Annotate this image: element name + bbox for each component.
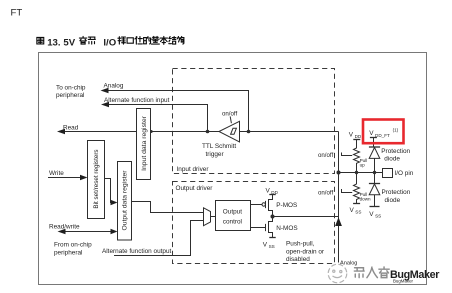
watermark text 嵌入式BugMaker	[354, 267, 440, 283]
svg-text:(1): (1)	[393, 127, 399, 132]
svg-text:Write: Write	[49, 170, 64, 177]
svg-text:Bit set/reset registers: Bit set/reset registers	[93, 149, 100, 208]
VDD rail above P-MOS	[266, 188, 279, 196]
wire: read line right of schmitt to pin column	[239, 131, 338, 133]
svg-text:BugMaker: BugMaker	[393, 278, 414, 283]
svg-text:Input data register: Input data register	[141, 115, 148, 171]
node dot: MOS drain junction	[271, 215, 275, 219]
svg-text:V: V	[263, 241, 268, 248]
svg-text:trigger: trigger	[206, 151, 225, 158]
svg-text:V: V	[266, 188, 271, 195]
node dot on IDR right edge	[150, 130, 153, 133]
wire: BSRR to ODR connector	[105, 179, 118, 206]
svg-text:To on-chip: To on-chip	[56, 85, 86, 92]
svg-text:on/off: on/off	[222, 111, 237, 118]
svg-text:peripheral: peripheral	[54, 249, 82, 256]
VSS rail below N-MOS	[263, 238, 276, 249]
wire: ODR to mux top input	[132, 202, 204, 213]
wire: Write with arrow into BSRR	[48, 170, 88, 180]
N-MOS transistor	[251, 217, 298, 238]
svg-text:SS: SS	[375, 213, 381, 218]
mux trapezoid	[204, 208, 211, 226]
VSS rail below bottom diode	[369, 207, 381, 219]
svg-text:DD: DD	[355, 134, 362, 139]
figure outer frame	[39, 53, 427, 285]
svg-text:open-drain or: open-drain or	[286, 248, 325, 255]
P-MOS transistor	[251, 195, 298, 217]
input driver dashed box	[173, 69, 335, 174]
protection diode (top)	[369, 147, 411, 173]
input data register box	[137, 109, 151, 180]
svg-text:13.: 13.	[47, 37, 60, 48]
wire: Read/write double arrow	[49, 224, 118, 235]
watermark logo circle	[328, 264, 347, 283]
svg-text:V: V	[369, 130, 374, 137]
svg-text:DD_FT: DD_FT	[375, 133, 390, 138]
I/O pin square	[383, 169, 414, 178]
wire: MOS output to pin column	[273, 216, 339, 218]
svg-text:diode: diode	[384, 156, 400, 163]
svg-text:Alternate function output: Alternate function output	[102, 248, 172, 255]
svg-text:on/off: on/off	[318, 189, 333, 196]
svg-text:P-MOS: P-MOS	[276, 202, 297, 209]
svg-text:TTL Schmitt: TTL Schmitt	[202, 143, 236, 150]
wire: read line from IDR to schmitt apex	[151, 131, 220, 133]
svg-text:From on-chip: From on-chip	[54, 242, 92, 249]
svg-text:Read: Read	[63, 125, 79, 132]
output control box	[216, 201, 251, 231]
wire: Alternate function input with arrow	[101, 97, 208, 131]
svg-text:N-MOS: N-MOS	[276, 225, 297, 232]
svg-text:V: V	[349, 132, 354, 139]
svg-text:Output: Output	[223, 209, 242, 216]
bit set/reset registers box	[88, 141, 105, 219]
svg-text:Alternate function input: Alternate function input	[104, 97, 170, 104]
svg-text:SS: SS	[355, 209, 361, 214]
svg-text:disabled: disabled	[286, 256, 310, 263]
svg-text:Output data register: Output data register	[122, 170, 129, 231]
svg-text:control: control	[223, 219, 242, 226]
svg-text:down: down	[360, 197, 371, 202]
on/off stub for pull-up	[318, 152, 352, 159]
wire: Alternate function output	[102, 221, 204, 256]
svg-text:Read/write: Read/write	[49, 224, 80, 231]
TTL Schmitt trigger symbol	[202, 111, 240, 159]
svg-text:I/O: I/O	[103, 37, 116, 48]
svg-text:Protection: Protection	[382, 189, 411, 196]
pull-up resistor	[354, 140, 368, 173]
svg-text:I/O pin: I/O pin	[395, 170, 414, 177]
node dot: I/O node on pin column	[337, 171, 341, 175]
svg-text:5V: 5V	[63, 37, 75, 48]
on/off stub for pull-down	[318, 189, 352, 196]
node dot: alt fn input junction	[206, 130, 210, 134]
svg-text:Input driver: Input driver	[177, 166, 210, 173]
svg-text:peripheral: peripheral	[56, 92, 84, 99]
svg-text:DD: DD	[271, 190, 278, 195]
svg-text:FT: FT	[11, 7, 23, 18]
wire: mux out to output control	[211, 216, 216, 218]
protection diode (bottom)	[369, 173, 411, 207]
svg-text:Analog: Analog	[104, 82, 124, 89]
wire: Analog (top) with arrow	[101, 82, 249, 131]
svg-text:V: V	[369, 211, 374, 218]
VSS rail below pull-down	[350, 204, 362, 215]
output data register box	[118, 162, 132, 241]
svg-text:up: up	[360, 163, 366, 168]
svg-text:SS: SS	[269, 244, 275, 249]
figure title: 图 13. 5V 容忍 I/O 端口位的基本结构	[37, 36, 184, 48]
VDD rail above pull-up	[349, 132, 362, 140]
red highlight box	[363, 120, 404, 144]
svg-text:V: V	[350, 207, 355, 214]
svg-text:Output driver: Output driver	[176, 185, 214, 192]
VDD_FT rail	[369, 127, 398, 146]
svg-text:Push-pull,: Push-pull,	[286, 241, 315, 248]
output driver dashed box	[173, 182, 335, 264]
svg-text:diode: diode	[385, 197, 401, 204]
wire: vertical pin column line	[338, 132, 340, 263]
svg-text:Protection: Protection	[381, 148, 410, 155]
svg-text:on/off: on/off	[318, 152, 333, 159]
node dot: pull resistor column	[355, 171, 358, 174]
pull-down resistor	[354, 173, 372, 204]
node dot: analog junction	[247, 130, 251, 134]
wire: Read line with left arrow	[57, 125, 137, 135]
wire: node line to I/O pin	[339, 172, 383, 174]
node dot: protection diode column	[373, 171, 376, 174]
arrowhead up on pin column	[335, 217, 342, 226]
